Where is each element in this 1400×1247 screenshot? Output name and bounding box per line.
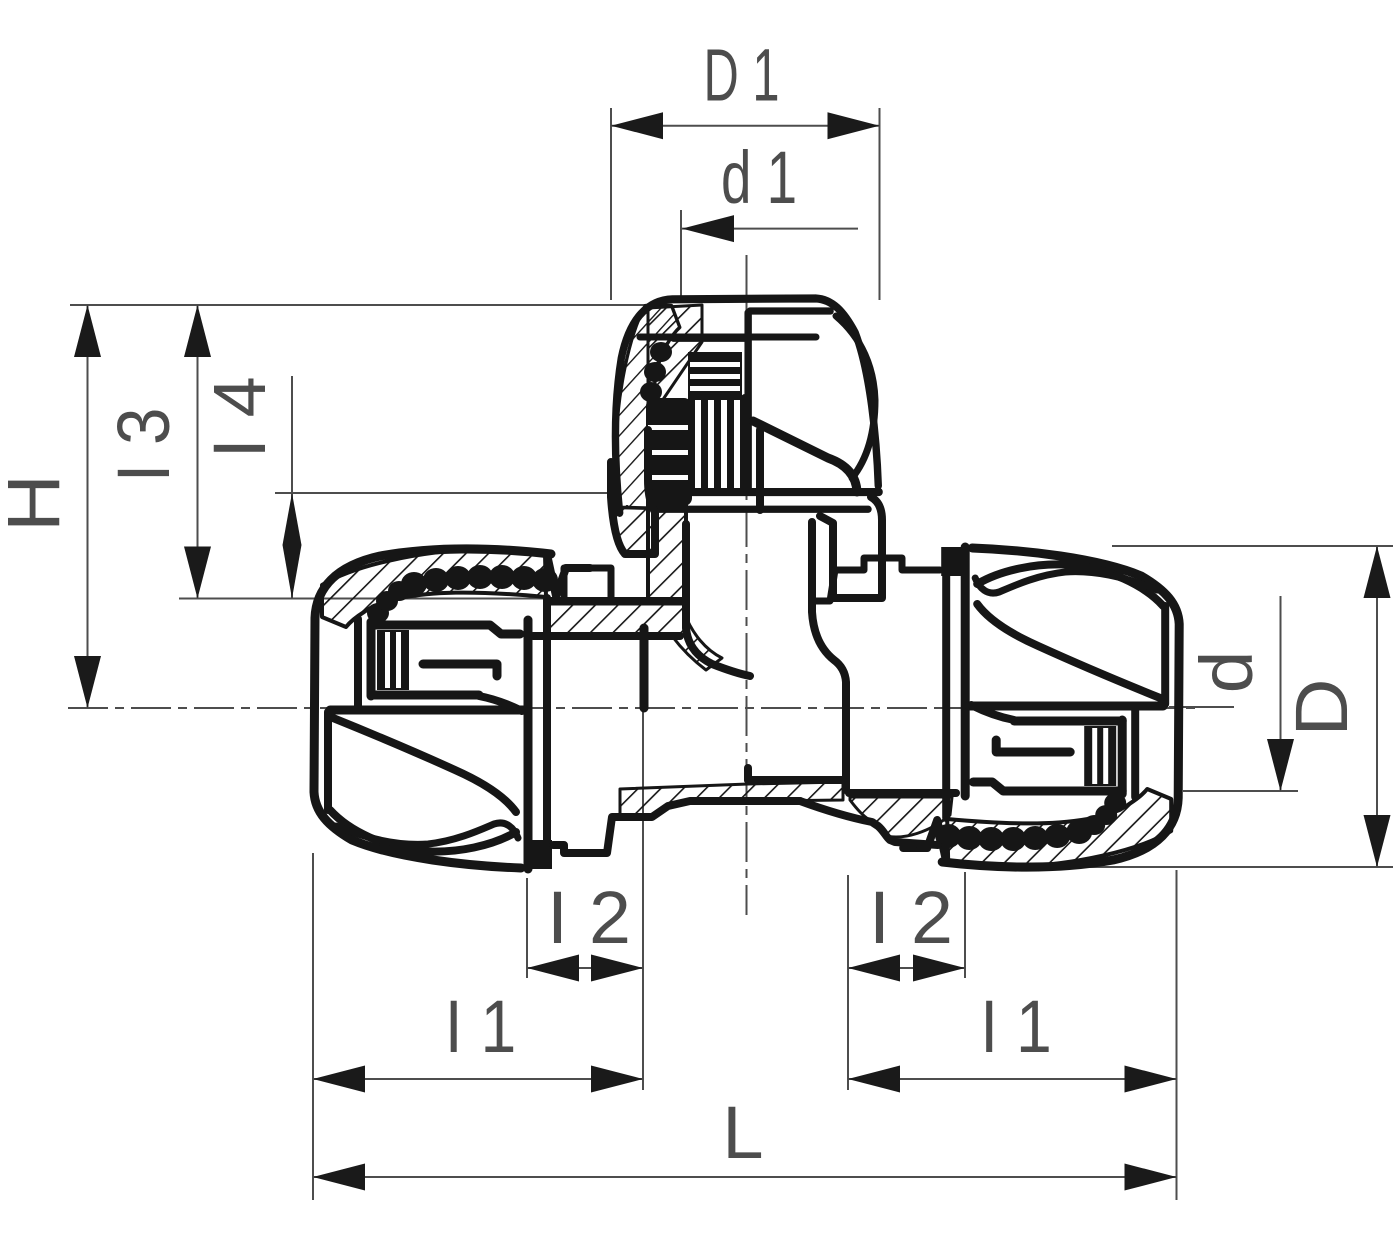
svg-text:I 1: I 1 — [980, 985, 1052, 1068]
svg-text:I 2: I 2 — [547, 876, 631, 959]
svg-text:d: d — [1185, 651, 1267, 694]
svg-text:D 1: D 1 — [703, 34, 779, 117]
svg-text:I 3: I 3 — [102, 408, 185, 483]
svg-text:I 1: I 1 — [445, 985, 517, 1068]
svg-text:I 4: I 4 — [198, 376, 281, 458]
svg-text:I 2: I 2 — [869, 876, 953, 959]
svg-text:L: L — [722, 1091, 763, 1174]
svg-text:H: H — [0, 474, 75, 532]
svg-text:D: D — [1281, 678, 1363, 736]
svg-text:d 1: d 1 — [721, 136, 797, 219]
